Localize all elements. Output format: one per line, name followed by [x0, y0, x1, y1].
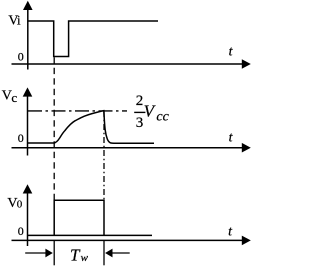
svg-text:0: 0 — [18, 49, 24, 63]
svg-text:cc: cc — [156, 110, 169, 125]
svg-text:c: c — [11, 90, 17, 105]
svg-text:i: i — [17, 13, 21, 28]
svg-text:3: 3 — [136, 115, 144, 131]
svg-text:0: 0 — [18, 224, 24, 238]
svg-text:2: 2 — [136, 93, 144, 109]
svg-text:0: 0 — [18, 131, 24, 145]
svg-text:0: 0 — [17, 198, 23, 210]
svg-text:T: T — [70, 246, 81, 265]
svg-text:w: w — [81, 252, 89, 264]
